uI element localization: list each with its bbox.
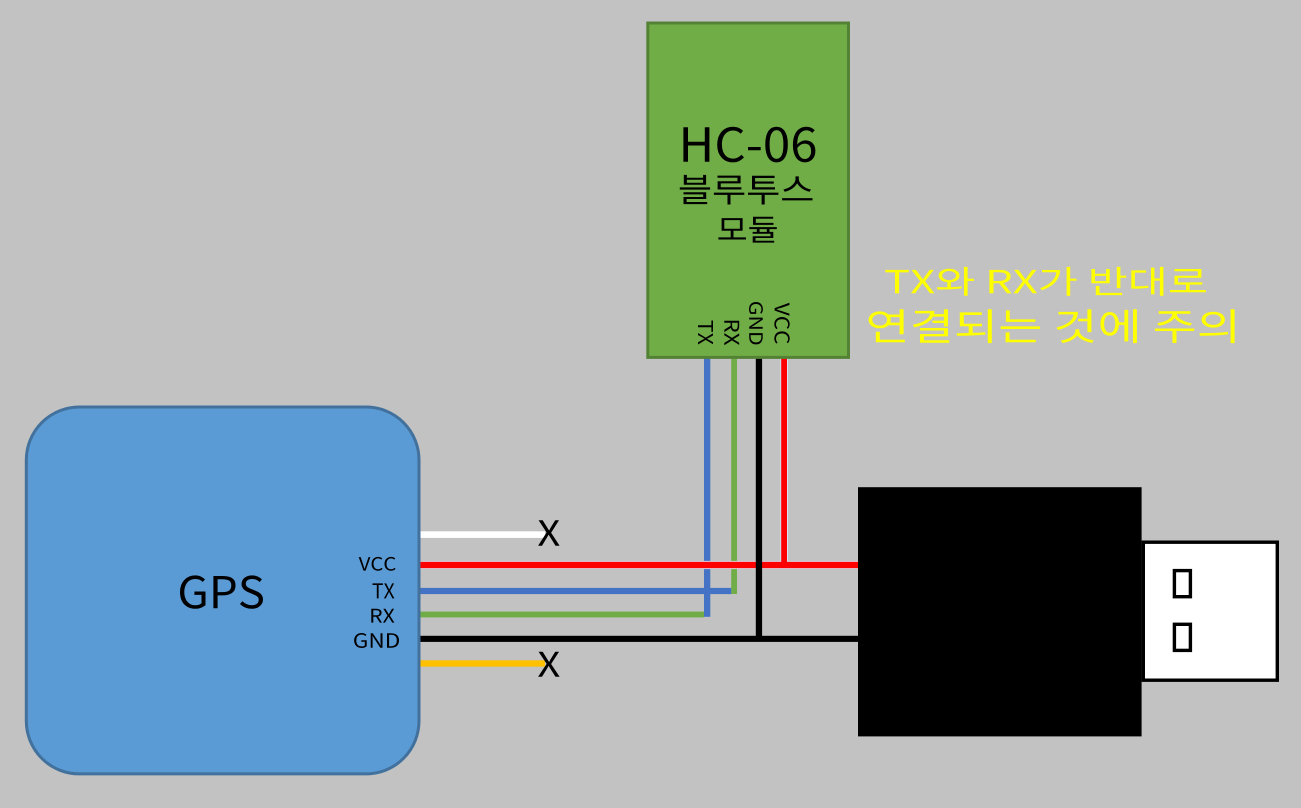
wire: black horizontal GND from GPS to USB body	[419, 636, 860, 642]
wire: red vertical from HC-06 VCC pin down to red horizontal	[781, 355, 787, 564]
USB plug body	[858, 487, 1142, 736]
GPS pin label TX	[373, 583, 395, 598]
X mark on white stub	[538, 520, 560, 546]
GPS pin label GND	[354, 633, 399, 648]
HC-06 pin label TX (rotated)	[698, 321, 713, 345]
HC-06 pin label VCC (rotated)	[774, 303, 789, 344]
HC-06 korean line: 블루투스	[680, 175, 813, 205]
wire: red halo outline	[419, 355, 859, 569]
X mark on orange stub	[538, 652, 560, 677]
USB contact hole 1	[1174, 571, 1190, 597]
wire: green vertical from HC-06 RX pin down to GPS TX row	[731, 355, 737, 594]
USB metal shell	[1143, 542, 1277, 680]
GPS pin label VCC	[359, 557, 396, 571]
HC-06 title text	[683, 127, 815, 163]
wire: blue vertical from HC-06 TX pin down to GPS RX row	[704, 355, 710, 617]
wire: white stub (unused pin)	[419, 531, 545, 538]
wire: red horizontal VCC from GPS to USB body	[419, 562, 860, 568]
GPS pin label RX	[371, 609, 394, 623]
HC-06 pin label GND (rotated)	[749, 302, 763, 344]
HC-06 module body	[648, 23, 849, 357]
note text line 1: TX와 RX가 반대로	[885, 267, 1205, 296]
wire: black vertical from HC-06 GND pin down to black horizontal	[756, 355, 762, 640]
USB contact hole 2	[1174, 624, 1190, 650]
wire: blue horizontal from GPS TX pin to green vertical	[419, 588, 731, 594]
HC-06 pin label RX (rotated)	[724, 321, 739, 346]
note text line 2: 연결되는 것에 주의	[869, 309, 1235, 343]
wire: orange stub (unused pin)	[419, 660, 545, 666]
wire: green horizontal from GPS RX pin to blue vertical	[419, 612, 704, 618]
GPS module body	[26, 407, 419, 774]
GPS title text	[180, 575, 263, 608]
HC-06 korean line: 모듈	[718, 217, 776, 243]
